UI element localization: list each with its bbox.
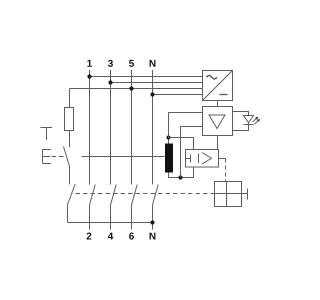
current transformer core line: [82, 156, 165, 158]
wire pole2 upper conductor: [110, 70, 112, 185]
wire tap from neutral to rectifier: [153, 94, 203, 96]
switch contact pole2 blade: [111, 185, 117, 206]
release mechanism cross vertical: [226, 182, 228, 207]
LED emission arrow 2: [254, 119, 260, 124]
switch contact pole3 blade: [132, 185, 138, 206]
rectifier AC symbol ~: [207, 76, 217, 79]
node junction pole2 tap: [108, 80, 112, 84]
terminal label 2: [87, 233, 92, 240]
trip relay threshold bar symbol: [198, 154, 200, 164]
trip relay box K1: [186, 150, 219, 168]
terminal label 5: [129, 60, 134, 67]
wire neutral lower conductor: [152, 205, 154, 230]
current transformer secondary winding (black bar): [165, 144, 173, 173]
wire test return to neutral: [68, 222, 153, 224]
node junction pole1 tap: [87, 74, 91, 78]
node junction neutral tap: [150, 92, 154, 96]
node junction test return on neutral: [150, 220, 154, 224]
wire pole3 lower conductor: [131, 205, 133, 230]
test button actuator symbol: [43, 150, 52, 164]
LED D1 triangle: [244, 116, 254, 123]
trip relay input bar symbol: [186, 155, 191, 163]
wire winding top to node: [168, 138, 170, 144]
node junction winding top: [166, 135, 170, 139]
wire rectifier to amplifier: [217, 101, 219, 107]
wire pole1 upper conductor: [89, 70, 91, 185]
amplifier triangle symbol: [209, 115, 225, 129]
node junction pole3 tap: [129, 86, 133, 90]
switch contact test linked blade: [68, 184, 76, 205]
wire LED anode: [233, 112, 249, 116]
wire dashed mechanical linkage: [72, 193, 215, 195]
amplifier box U2: [203, 107, 233, 136]
rectifier DC symbol -: [220, 94, 228, 96]
wire pole2 lower conductor: [110, 205, 112, 230]
terminal label N (bottom): [150, 233, 156, 240]
wire winding top to trip relay top: [169, 138, 194, 150]
wire dashed actuator link to test contact: [52, 156, 64, 158]
trip relay greater-than symbol: [202, 153, 212, 165]
wire test branch down: [67, 205, 69, 223]
wire winding bottom to amplifier input: [181, 127, 203, 178]
wire winding top to amplifier input: [169, 113, 203, 138]
wire test branch down to resistor: [69, 89, 71, 108]
handle bar: [247, 189, 249, 200]
wire tap from pole3 to rectifier and test resistor: [70, 88, 203, 90]
terminal label 3: [108, 60, 113, 67]
wire LED cathode return: [233, 123, 249, 131]
LED D1 cathode bar: [244, 124, 254, 126]
resistor R test: [65, 108, 74, 131]
wire test contact to linked contact: [69, 167, 71, 185]
release mechanism box: [215, 182, 242, 207]
terminal label 1: [87, 60, 92, 67]
test button T mark: [41, 128, 53, 141]
switch contact test button blade: [64, 147, 70, 167]
power supply rectifier box U1: [203, 71, 233, 101]
switch contact neutral blade: [153, 185, 159, 206]
wire pole1 lower conductor: [89, 205, 91, 230]
wire tap from pole2 to rectifier: [111, 82, 203, 84]
terminal label 4: [108, 233, 113, 240]
terminal label 6: [129, 233, 134, 240]
node junction winding bottom: [178, 175, 182, 179]
LED emission arrow 1: [253, 117, 259, 122]
wire winding bottom to trip relay bottom: [169, 167, 194, 178]
wire neutral upper conductor: [152, 70, 154, 185]
wire trip relay output stub: [219, 158, 226, 160]
switch contact pole1 blade: [90, 185, 96, 206]
wire pole3 upper conductor: [131, 70, 133, 185]
release mechanism cross horizontal to handle: [215, 193, 248, 195]
wire amplifier to trip relay: [217, 136, 219, 150]
wire dashed trip relay to release mechanism: [225, 159, 227, 182]
wire resistor to test contact: [69, 131, 71, 148]
terminal label N (top): [150, 60, 156, 67]
wire tap from pole1 to rectifier: [90, 76, 203, 78]
